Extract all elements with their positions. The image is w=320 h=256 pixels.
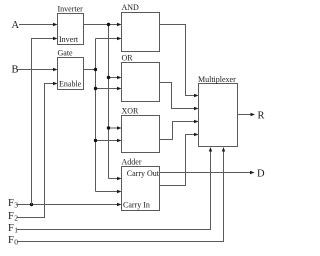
- svg-text:XOR: XOR: [122, 107, 140, 116]
- wire F3 branch to inverter Invert pin: [32, 37, 58, 205]
- wire bus to OR input 1: [109, 76, 122, 79]
- gate block: [58, 58, 84, 90]
- wire bus to adder input 2: [96, 190, 122, 193]
- svg-text:B: B: [12, 65, 19, 76]
- svg-text:Carry In: Carry In: [123, 201, 150, 210]
- AND label: [122, 3, 140, 12]
- wire bus to OR input 2: [96, 87, 122, 90]
- input label F3: [8, 198, 18, 210]
- svg-text:F: F: [8, 235, 14, 246]
- multiplexer block: [199, 84, 238, 147]
- svg-text:Multiplexer: Multiplexer: [198, 75, 236, 84]
- svg-text:F: F: [8, 223, 14, 234]
- OR label: [122, 54, 134, 63]
- adder pin label Carry Out: [127, 169, 160, 178]
- svg-text:Gate: Gate: [58, 49, 74, 58]
- junction F3 branch: [30, 203, 33, 206]
- inverter block: [58, 14, 84, 45]
- output label D: [257, 169, 265, 180]
- OR block: [122, 63, 160, 102]
- input label F1: [8, 223, 18, 235]
- gate label: [58, 49, 74, 58]
- svg-text:F: F: [8, 211, 14, 222]
- wire multiplexer output to R: [238, 113, 256, 116]
- svg-text:R: R: [258, 111, 265, 122]
- wire bus to AND input 2: [96, 37, 122, 40]
- inverter label: [58, 5, 84, 14]
- wire XOR output to multiplexer input 3: [160, 120, 199, 140]
- wire inverter output bus (vertical): [108, 25, 110, 179]
- wire adder sum output to multiplexer input 4: [160, 133, 199, 186]
- svg-text:OR: OR: [122, 54, 134, 63]
- junction inverter output bus: [107, 23, 110, 26]
- AND block: [122, 13, 160, 52]
- wire F3 to adder carry in: [17, 203, 122, 206]
- XOR block: [122, 116, 160, 153]
- svg-text:Inverter: Inverter: [58, 5, 84, 14]
- wire OR output to multiplexer input 2: [160, 83, 199, 111]
- input label B: [12, 65, 19, 76]
- junction gate output bus: [94, 68, 97, 71]
- svg-text:Enable: Enable: [59, 80, 82, 89]
- svg-text:A: A: [12, 20, 20, 31]
- svg-text:Adder: Adder: [122, 158, 142, 167]
- wire bus to adder input 1: [109, 177, 122, 180]
- adder label: [122, 158, 142, 167]
- svg-text:Invert: Invert: [59, 35, 79, 44]
- junction OR input 2: [94, 87, 97, 90]
- wire F1 to multiplexer select 0: [17, 147, 212, 230]
- input label F2: [8, 211, 18, 223]
- junction XOR input 2: [94, 139, 97, 142]
- wire A to inverter input: [19, 23, 58, 26]
- svg-text:AND: AND: [122, 3, 140, 12]
- gate pin label Enable: [59, 80, 82, 89]
- svg-text:F: F: [8, 198, 14, 209]
- svg-text:Carry Out: Carry Out: [127, 169, 160, 178]
- adder block: [122, 167, 160, 211]
- adder pin label Carry In: [123, 201, 150, 210]
- wire bus to XOR input 1: [109, 126, 122, 129]
- wire adder carry out to D: [160, 171, 255, 174]
- input label A: [12, 20, 20, 31]
- input label F0: [8, 235, 18, 247]
- XOR label: [122, 107, 140, 116]
- svg-text:D: D: [257, 169, 265, 180]
- junction OR input 1: [107, 76, 110, 79]
- wire bus to XOR input 2: [96, 139, 122, 142]
- wire F0 to multiplexer select 1: [17, 147, 225, 242]
- output label R: [258, 111, 265, 122]
- multiplexer label: [198, 75, 236, 84]
- wire inverter output to AND input 1: [84, 23, 122, 26]
- wire AND output to multiplexer input 1: [160, 25, 199, 98]
- inverter pin label Invert: [59, 35, 79, 44]
- junction XOR input 1: [107, 126, 110, 129]
- wire gate output to bus: [84, 69, 96, 71]
- wire gate output bus (vertical): [95, 39, 97, 192]
- wire B to gate input: [18, 68, 58, 71]
- wire F2 to gate Enable pin: [17, 82, 58, 218]
